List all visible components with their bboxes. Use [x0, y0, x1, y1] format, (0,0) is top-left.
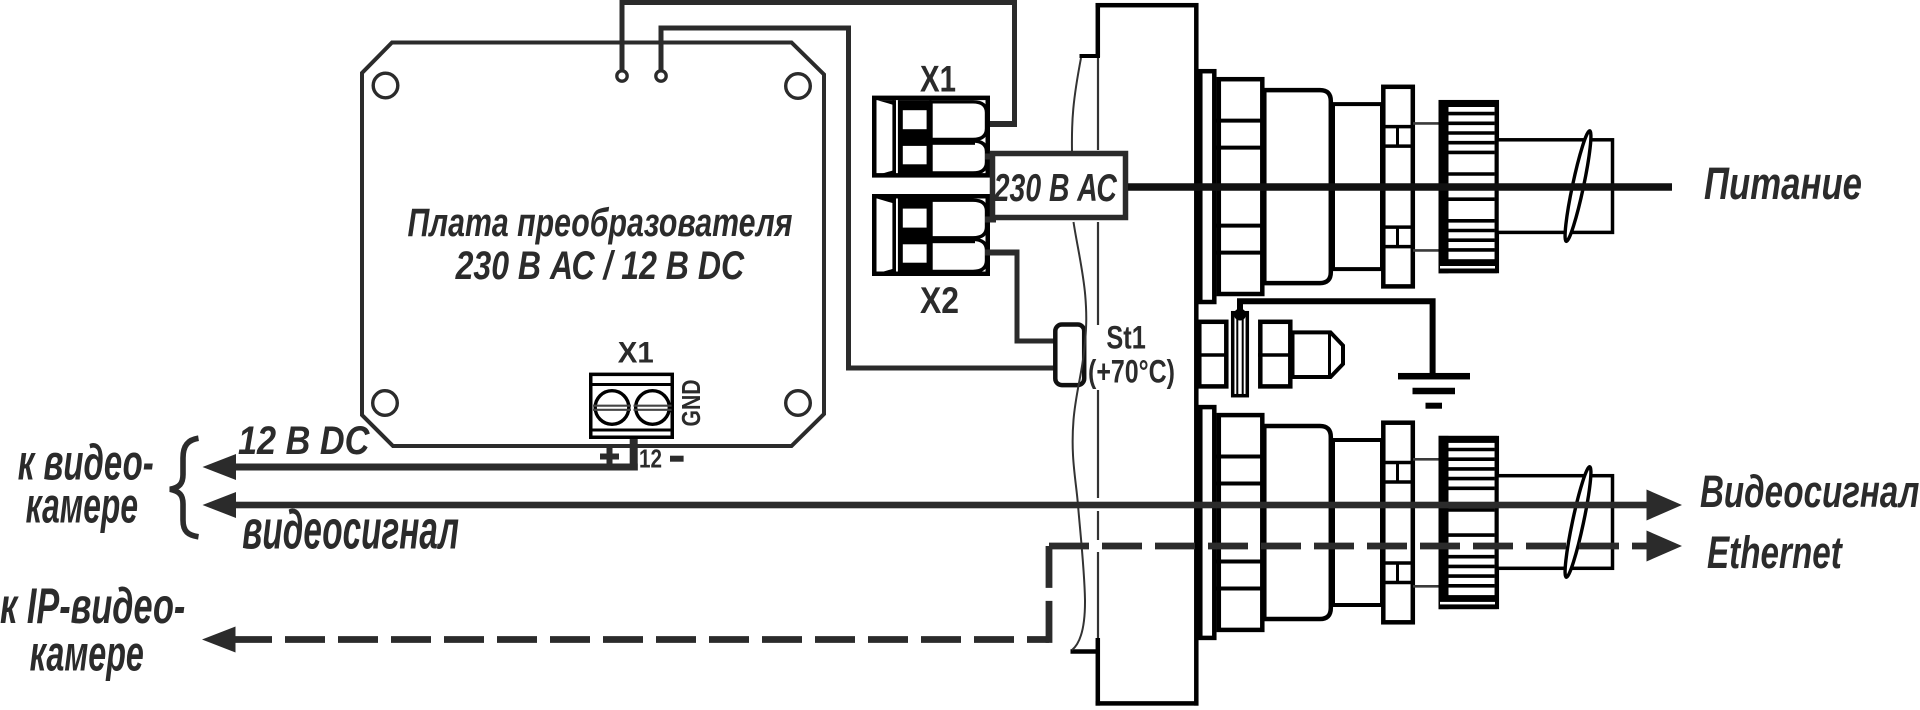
svg-text:Видеосигнал: Видеосигнал: [1700, 466, 1919, 517]
video left arrowhead: [203, 492, 237, 518]
Ethernet dashed line horizontal segment to connector: [1049, 543, 1647, 550]
power backshell: [1497, 140, 1613, 233]
panel left edge lower thick segment: [1096, 638, 1101, 706]
ground stud hex nut right: [1260, 322, 1290, 387]
power cable bend loop: [1561, 130, 1595, 243]
video barrel: [1333, 440, 1382, 605]
svg-text:230 В АС / 12 В DC: 230 В АС / 12 В DC: [455, 244, 745, 288]
svg-text:камере: камере: [30, 626, 144, 682]
svg-text:GND: GND: [676, 380, 706, 427]
svg-text:X2: X2: [920, 280, 959, 321]
plug connector X2: [872, 194, 990, 276]
svg-text:12 В DC: 12 В DC: [238, 419, 370, 463]
video signal line: [232, 502, 1647, 509]
12 V DC wire: [232, 464, 638, 471]
board mounting hole top-left: [373, 73, 398, 98]
label box 230 V AC: [993, 154, 1126, 218]
12V left arrowhead: [203, 454, 237, 480]
minus sign: [670, 456, 684, 462]
power barrel: [1333, 104, 1382, 269]
circular connector power : flange: [1200, 71, 1214, 302]
svg-text:12: 12: [639, 444, 662, 474]
terminal screw left: [595, 391, 629, 425]
board mounting hole top-right: [786, 74, 811, 99]
panel left edge thin segment: [1097, 58, 1099, 150]
ground stud threaded rod: [1233, 313, 1248, 396]
curly brace: [170, 438, 199, 537]
ground stud pointed tip: [1293, 332, 1344, 377]
ground symbol: [1398, 373, 1470, 380]
power coupling ring: [1383, 87, 1413, 287]
power knurled nut: [1441, 102, 1497, 271]
Ethernet left arrowhead: [202, 627, 236, 653]
video coupling nut: [1219, 415, 1263, 630]
Ethernet right arrowhead: [1647, 531, 1683, 562]
svg-text:Плата преобразователя: Плата преобразователя: [408, 201, 793, 245]
terminal block X1: [591, 374, 673, 437]
svg-text:X1: X1: [920, 58, 956, 99]
plug connector X1: [872, 96, 990, 178]
svg-text:230 В АС: 230 В АС: [993, 167, 1117, 210]
video knurled nut: [1441, 438, 1497, 607]
Ethernet dashed line horizontal bottom segment: [232, 636, 1049, 643]
svg-text:St1: St1: [1106, 320, 1145, 356]
white backing for St1 labels: [1090, 325, 1178, 387]
power alignment tick marks: [1413, 122, 1441, 125]
thermostat St1 body: [1055, 325, 1084, 386]
converter board outline: [362, 43, 824, 447]
svg-text:Питание: Питание: [1704, 158, 1862, 209]
video backshell: [1497, 476, 1613, 569]
power coupling nut: [1219, 79, 1263, 294]
board mounting hole bottom-right: [786, 391, 811, 416]
panel break curve lower part: [1072, 222, 1086, 650]
power main shell: [1264, 90, 1331, 283]
terminal screw right: [636, 391, 670, 425]
video coupling ring: [1383, 423, 1413, 623]
panel upper wing step: [1080, 54, 1101, 58]
panel left edge upper thick segment: [1096, 3, 1101, 57]
video alignment tick marks: [1413, 458, 1441, 461]
video cable bend loop: [1561, 466, 1595, 579]
board mounting hole bottom-left: [373, 391, 398, 416]
junction dot on stud: [1234, 309, 1246, 321]
circular connector video : flange: [1200, 407, 1214, 638]
board pin 1: [617, 71, 627, 81]
wire from board pin 2 to thermostat St1: [659, 26, 852, 31]
svg-text:X1: X1: [618, 336, 654, 369]
panel bottom edge: [1096, 701, 1199, 706]
X2 pin stub upper: [985, 217, 996, 223]
panel lower wing step: [1071, 649, 1101, 654]
panel right edge: [1194, 3, 1199, 706]
power bayonet slot pins: [1396, 127, 1399, 147]
X1 pin stub lower: [985, 154, 996, 160]
video main shell: [1264, 426, 1331, 619]
Ethernet dashed line vertical segment: [1046, 546, 1053, 643]
svg-text:(+70°C): (+70°C): [1088, 354, 1175, 390]
ground wire from stud to ground symbol: [1240, 301, 1433, 374]
ground stud hex nut left: [1199, 322, 1226, 387]
svg-text:видеосигнал: видеосигнал: [242, 499, 459, 561]
wire from X2 to thermostat St1: [985, 250, 1020, 256]
svg-text:камере: камере: [26, 478, 138, 534]
panel break curve upper part: [1072, 58, 1081, 154]
video right arrowhead: [1647, 490, 1683, 521]
wire from board pin 1 to connector X1: [620, 0, 1018, 5]
video bayonet slot pins: [1396, 463, 1399, 483]
panel top edge: [1096, 3, 1199, 8]
svg-text:Ethernet: Ethernet: [1707, 527, 1843, 578]
230 V AC power line to Pitanie: [1128, 183, 1672, 191]
plus sign: [600, 454, 619, 460]
board pin 2: [656, 71, 666, 81]
